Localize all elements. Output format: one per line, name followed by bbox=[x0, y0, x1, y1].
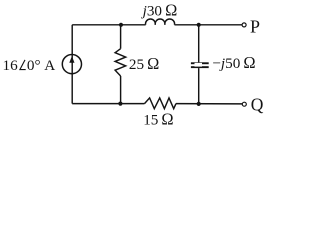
svg-text:25 Ω: 25 Ω bbox=[129, 54, 159, 73]
wire: bottom rail right segment bbox=[176, 103, 242, 105]
current source I1 circle bbox=[62, 55, 81, 74]
wire: capacitor bottom lead bbox=[198, 68, 200, 104]
current source arrow head bbox=[69, 56, 74, 63]
wire: top rail left segment bbox=[72, 24, 145, 26]
svg-text:16: 16 bbox=[3, 57, 19, 74]
inductor L1 coil (j30 ohm) bbox=[146, 19, 175, 25]
junction dot: top of capacitor branch bbox=[197, 23, 201, 27]
svg-text:15 Ω: 15 Ω bbox=[143, 110, 173, 129]
junction dot: top of 25 ohm branch bbox=[119, 23, 123, 27]
wire: 25 ohm branch top lead bbox=[120, 25, 122, 49]
svg-text:Q: Q bbox=[251, 94, 264, 114]
svg-text:j30 Ω: j30 Ω bbox=[141, 0, 178, 19]
wire: top rail right segment bbox=[175, 24, 243, 26]
terminal P open circle bbox=[242, 23, 246, 27]
wire: left rail with source bbox=[71, 25, 73, 104]
svg-text:−j50 Ω: −j50 Ω bbox=[212, 53, 255, 72]
junction dot: bottom of 25 ohm branch bbox=[118, 102, 122, 106]
svg-text:0° A: 0° A bbox=[27, 57, 55, 74]
capacitor C1 white center gap bbox=[195, 63, 203, 67]
capacitor C1 top plate bbox=[191, 62, 209, 64]
capacitor C1 bottom plate bbox=[191, 66, 209, 68]
wire: capacitor top lead bbox=[198, 25, 200, 63]
wire: 25 ohm branch bottom lead bbox=[120, 76, 122, 104]
junction dot: bottom of capacitor branch bbox=[197, 102, 201, 106]
resistor R2 15 ohm zigzag bbox=[145, 98, 177, 109]
angle symbol of source label bbox=[20, 60, 26, 70]
wire: bottom rail left segment bbox=[72, 103, 144, 105]
terminal Q open circle bbox=[242, 102, 246, 106]
resistor R1 25 ohm zigzag bbox=[115, 49, 126, 76]
svg-text:P: P bbox=[250, 17, 260, 37]
